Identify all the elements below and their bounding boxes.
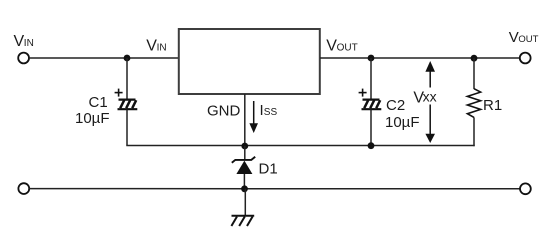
wire middle rail — [126, 145, 474, 147]
node junction C2/VOUT — [368, 55, 375, 62]
resistor R1 — [467, 89, 480, 118]
diode D1 zener — [232, 157, 255, 174]
svg-text:GND: GND — [207, 103, 241, 120]
node junction D1 bottom — [241, 185, 248, 192]
node junction D1 top — [241, 143, 248, 150]
wire D1 top lead — [244, 146, 246, 160]
wire C2 bottom lead — [370, 109, 372, 145]
label C1 value — [75, 94, 110, 127]
svg-text:10µF: 10µF — [75, 110, 110, 127]
terminal input circle — [18, 53, 29, 64]
svg-text:OUT: OUT — [518, 34, 538, 45]
svg-text:C1: C1 — [89, 94, 108, 111]
capacitor C1 — [115, 89, 138, 110]
label Iss — [260, 102, 278, 119]
node VIN label (top-left) — [14, 33, 34, 50]
node junction C1/VIN — [124, 55, 131, 62]
op-amp U1 regulator box — [179, 29, 320, 94]
svg-text:D1: D1 — [259, 161, 278, 178]
svg-text:V: V — [509, 29, 519, 46]
ground — [231, 216, 254, 226]
node junction R1/VOUT — [471, 55, 478, 62]
pin VIN label — [146, 38, 166, 55]
svg-text:IN: IN — [157, 43, 167, 54]
wire R1 top lead — [473, 58, 475, 89]
wire D1 bottom lead — [243, 174, 245, 189]
node VOUT label (top-right) — [509, 29, 539, 46]
wire C1 top lead — [126, 58, 128, 100]
terminal output circle — [520, 53, 531, 64]
label C2 value — [385, 97, 420, 131]
wire output rail — [320, 57, 520, 59]
node Iss arrow — [249, 101, 258, 133]
capacitor C2 — [359, 89, 382, 110]
svg-text:R1: R1 — [483, 97, 502, 114]
node Vxx measure arrow — [425, 61, 435, 143]
node junction C2 bottom — [368, 142, 375, 149]
svg-text:OUT: OUT — [337, 43, 358, 54]
wire C1 bottom lead — [126, 109, 128, 145]
label Vxx — [413, 89, 436, 107]
wire R1 bottom lead — [473, 117, 475, 146]
svg-text:SS: SS — [264, 107, 278, 118]
wire ground lead — [244, 189, 246, 216]
pin VOUT label — [326, 38, 357, 55]
wire input rail — [29, 57, 178, 59]
svg-text:C2: C2 — [386, 97, 405, 114]
svg-text:10µF: 10µF — [385, 114, 420, 131]
wire bottom rail — [29, 188, 519, 190]
wire C2 top lead — [370, 58, 372, 100]
terminal bottom-left circle — [18, 183, 29, 194]
pin GND lead wire — [244, 94, 246, 146]
svg-text:xx: xx — [423, 89, 437, 105]
terminal bottom-right circle — [520, 183, 531, 194]
svg-text:IN: IN — [24, 38, 34, 49]
